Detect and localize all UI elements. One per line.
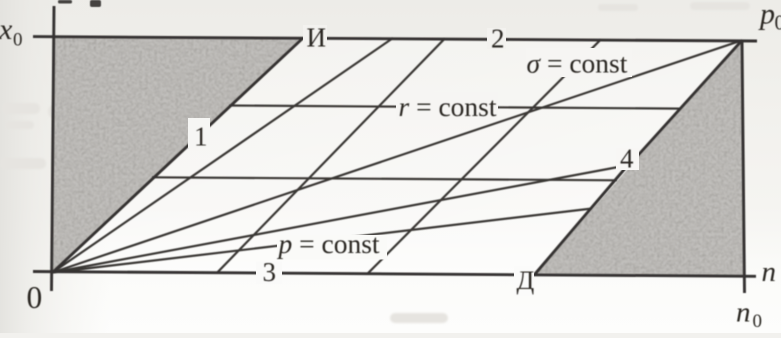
svg-text:И: И bbox=[307, 22, 327, 52]
svg-text:0: 0 bbox=[775, 11, 781, 35]
svg-text:0: 0 bbox=[753, 311, 763, 332]
svg-text:x: x bbox=[0, 13, 13, 46]
svg-text:n: n bbox=[762, 256, 777, 288]
svg-text:r = const: r = const bbox=[399, 91, 497, 122]
svg-text:σ = const: σ = const bbox=[527, 48, 628, 79]
svg-text:2: 2 bbox=[491, 24, 505, 54]
svg-text:Д: Д bbox=[517, 266, 535, 295]
svg-text:0: 0 bbox=[13, 30, 23, 51]
svg-text:3: 3 bbox=[263, 257, 277, 287]
svg-text:p: p bbox=[758, 0, 775, 31]
svg-text:p = const: p = const bbox=[277, 228, 380, 259]
svg-text:0: 0 bbox=[27, 280, 43, 315]
svg-text:1: 1 bbox=[194, 122, 208, 152]
svg-text:n: n bbox=[736, 297, 751, 329]
svg-text:4: 4 bbox=[620, 144, 634, 174]
